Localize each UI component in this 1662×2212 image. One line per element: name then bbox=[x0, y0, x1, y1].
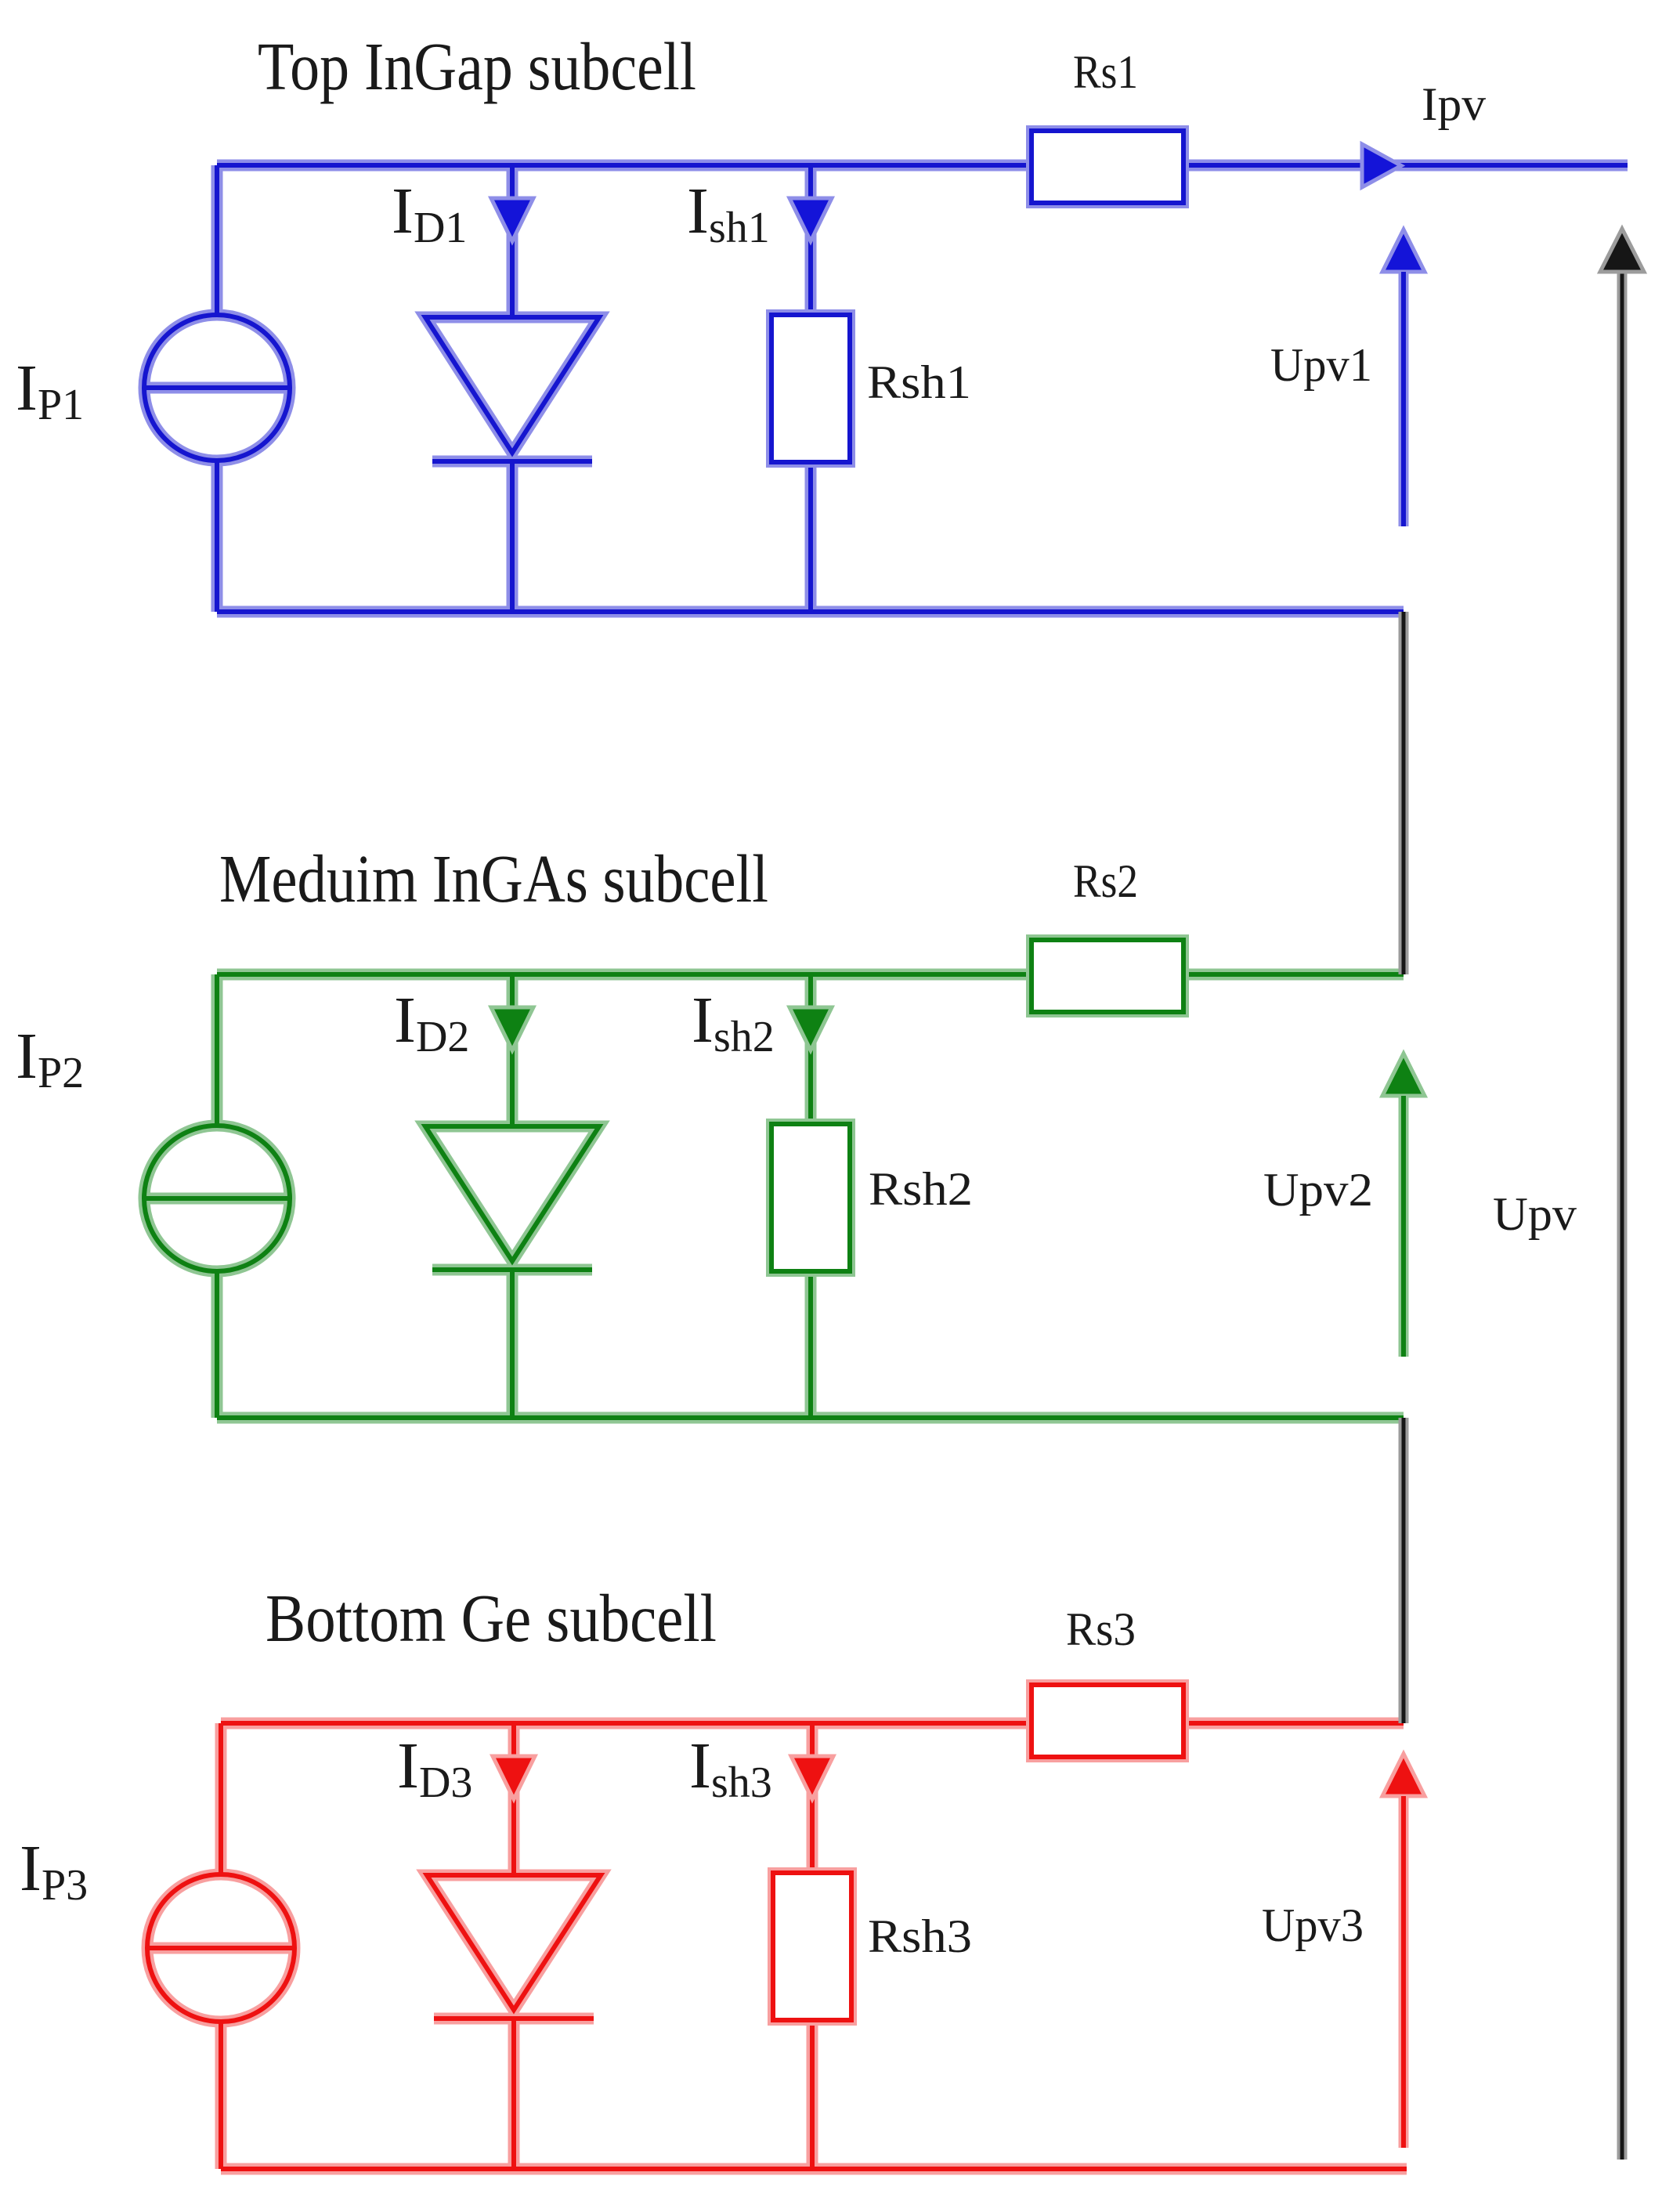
svg-text:Upv3: Upv3 bbox=[1262, 1899, 1364, 1951]
svg-text:Upv: Upv bbox=[1493, 1188, 1577, 1240]
svg-text:Meduim InGAs subcell: Meduim InGAs subcell bbox=[219, 840, 768, 916]
svg-text:Ipv: Ipv bbox=[1422, 78, 1486, 130]
svg-text:Rsh3: Rsh3 bbox=[868, 1910, 972, 1962]
svg-text:Top InGap subcell: Top InGap subcell bbox=[258, 28, 696, 104]
svg-text:Rs1: Rs1 bbox=[1073, 46, 1138, 98]
svg-text:Bottom Ge subcell: Bottom Ge subcell bbox=[266, 1580, 717, 1656]
svg-text:Upv1: Upv1 bbox=[1270, 339, 1372, 391]
svg-text:Rs3: Rs3 bbox=[1066, 1603, 1136, 1655]
svg-text:Rsh1: Rsh1 bbox=[867, 356, 971, 408]
svg-text:Rsh2: Rsh2 bbox=[869, 1163, 973, 1215]
svg-text:Rs2: Rs2 bbox=[1073, 855, 1138, 907]
svg-text:Upv2: Upv2 bbox=[1263, 1164, 1373, 1216]
